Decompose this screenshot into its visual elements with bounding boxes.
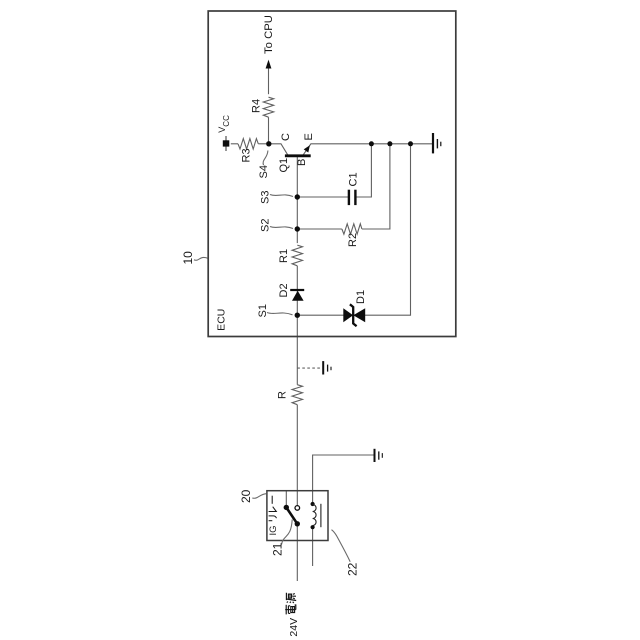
svg-text:20: 20 [239, 489, 253, 503]
svg-text:21: 21 [271, 542, 285, 556]
svg-text:S3: S3 [260, 191, 272, 204]
svg-text:R2: R2 [347, 233, 359, 247]
svg-text:To CPU: To CPU [263, 15, 275, 54]
svg-text:IG: IG [268, 525, 279, 535]
svg-text:D2: D2 [278, 283, 290, 297]
svg-text:Q1: Q1 [278, 158, 290, 173]
svg-text:C1: C1 [348, 172, 360, 186]
svg-text:E: E [303, 133, 315, 140]
svg-text:D1: D1 [355, 290, 367, 304]
svg-text:C: C [280, 133, 292, 141]
svg-text:VCC: VCC [217, 115, 231, 133]
svg-text:R4: R4 [251, 99, 263, 113]
svg-text:R3: R3 [241, 148, 253, 162]
svg-text:S4: S4 [258, 165, 270, 178]
svg-text:R1: R1 [278, 249, 290, 263]
svg-text:S1: S1 [257, 304, 269, 317]
svg-text:B: B [296, 159, 308, 166]
svg-text:24V: 24V [288, 618, 300, 637]
svg-text:S2: S2 [260, 219, 272, 232]
svg-text:10: 10 [181, 251, 195, 265]
svg-text:R: R [277, 391, 289, 399]
svg-text:22: 22 [345, 562, 359, 576]
svg-text:ECU: ECU [215, 309, 227, 331]
